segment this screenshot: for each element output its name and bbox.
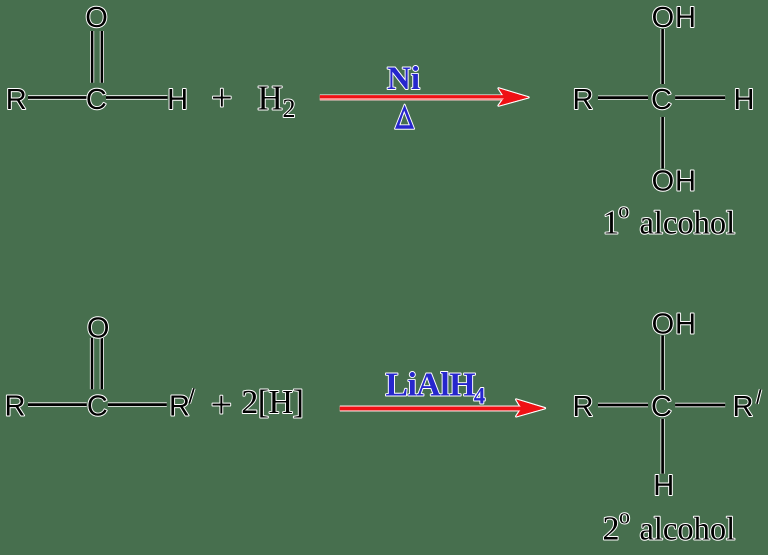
svg-text:alcohol: alcohol xyxy=(639,206,735,242)
arrow 2 head halo xyxy=(516,400,545,417)
svg-text:C: C xyxy=(86,84,107,116)
svg-text:C: C xyxy=(87,391,108,423)
bond C2-H2 xyxy=(675,95,725,99)
svg-text:LiAlH: LiAlH xyxy=(385,367,475,404)
bond C3-R'3 xyxy=(108,402,167,406)
double bond C3=O3 left line xyxy=(90,338,94,389)
svg-text:H: H xyxy=(258,79,283,118)
bond C2-O vertical bottom (product 1) xyxy=(660,117,664,169)
svg-text:2[H]: 2[H] xyxy=(241,384,303,421)
svg-text:alcohol: alcohol xyxy=(639,512,735,548)
double bond C1=O1 left line xyxy=(90,31,94,83)
arrow 1 head xyxy=(499,88,529,105)
bond O-C vertical top (product 2) xyxy=(660,336,664,391)
bond R2-C2 xyxy=(598,95,648,99)
bond C4-R'4 xyxy=(675,403,725,407)
double bond C3=O3 right line xyxy=(100,338,104,389)
svg-text:R: R xyxy=(573,84,594,116)
svg-text:R: R xyxy=(733,391,754,423)
prime mark on R'3 xyxy=(189,388,194,403)
svg-text:C: C xyxy=(651,84,672,116)
svg-text:O: O xyxy=(87,312,110,344)
svg-text:R: R xyxy=(169,391,190,423)
bond C4-H vertical bottom (product 2) xyxy=(660,419,664,474)
svg-text:H: H xyxy=(167,84,188,116)
bond R1-C1 xyxy=(28,95,87,99)
svg-text:C: C xyxy=(651,391,672,423)
svg-text:o: o xyxy=(618,198,629,223)
arrow 2 shaft xyxy=(340,406,535,412)
svg-text:Ni: Ni xyxy=(387,61,420,97)
svg-text:H: H xyxy=(653,470,674,502)
svg-text:+: + xyxy=(211,384,232,426)
svg-text:o: o xyxy=(619,504,630,529)
svg-text:OH: OH xyxy=(652,2,697,34)
arrow 2 head xyxy=(516,400,545,417)
double bond C1=O1 right line xyxy=(100,31,104,83)
svg-text:OH: OH xyxy=(652,309,697,341)
svg-text:2: 2 xyxy=(283,94,296,123)
arrow 1 shaft xyxy=(320,95,520,101)
bond R3-C3 xyxy=(28,402,87,406)
bond O-C vertical top (product 1) xyxy=(660,29,664,84)
svg-text:O: O xyxy=(85,2,108,34)
arrow 1 head halo xyxy=(499,88,529,105)
svg-text:R: R xyxy=(6,84,27,116)
svg-text:2: 2 xyxy=(603,511,620,548)
svg-text:R: R xyxy=(5,391,26,423)
svg-text:4: 4 xyxy=(474,383,486,408)
bond C1-H1 xyxy=(106,95,168,99)
svg-text:+: + xyxy=(211,77,232,119)
svg-text:OH: OH xyxy=(652,166,697,198)
bond R4-C4 xyxy=(598,403,648,407)
prime mark on R'4 xyxy=(757,389,761,404)
svg-text:1: 1 xyxy=(603,205,620,242)
heat label delta xyxy=(395,105,414,129)
svg-text:H: H xyxy=(734,84,755,116)
svg-text:R: R xyxy=(573,391,594,423)
